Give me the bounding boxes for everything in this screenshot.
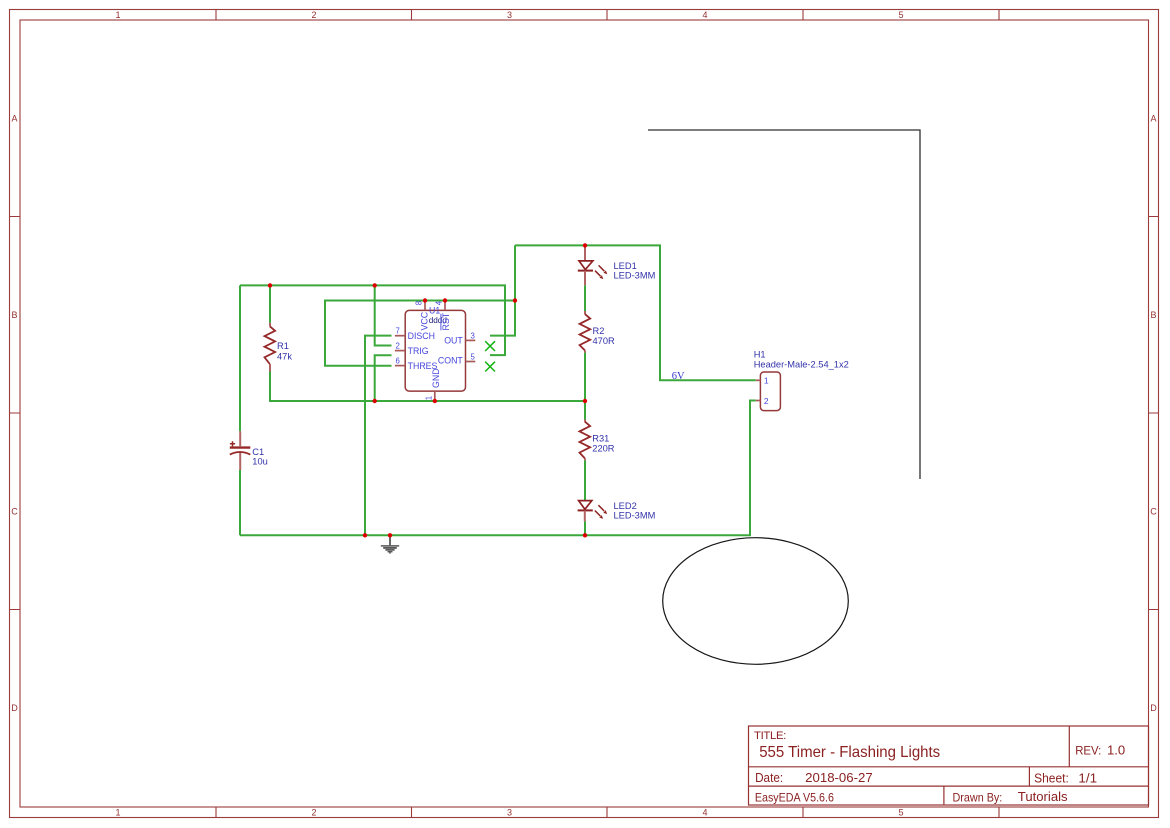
- junction node W4 mid branch: [373, 399, 377, 403]
- LED LED2: [578, 500, 656, 521]
- pin 4 RST: [434, 300, 451, 330]
- svg-text:A: A: [11, 114, 17, 124]
- svg-text:C1: C1: [252, 447, 264, 457]
- svg-text:4: 4: [434, 300, 443, 305]
- svg-text:4: 4: [702, 808, 707, 818]
- IC U1 555 timer body: [405, 306, 465, 391]
- svg-text:EasyEDA V5.6.6: EasyEDA V5.6.6: [755, 791, 834, 805]
- wire W1 top-left horizontal from C1 branch to CONT area: [240, 285, 505, 355]
- svg-text:U1: U1: [429, 306, 440, 316]
- resistor R1: [265, 323, 293, 372]
- svg-text:1: 1: [115, 10, 120, 20]
- svg-text:5: 5: [898, 808, 903, 818]
- wire from top rail down to OUT pin area: [490, 245, 515, 335]
- svg-text:2: 2: [764, 396, 769, 406]
- svg-text:C: C: [11, 507, 18, 517]
- svg-text:2: 2: [311, 10, 316, 20]
- resistor R31: [580, 420, 615, 461]
- svg-text:TITLE:: TITLE:: [754, 730, 786, 742]
- no-connect X on pin 3: [485, 341, 495, 351]
- junction node W1-TRIG branch: [373, 283, 377, 287]
- svg-text:8: 8: [414, 301, 423, 305]
- wire R31 to LED2: [584, 460, 586, 500]
- junction node rail-LED2: [583, 533, 587, 537]
- svg-text:Sheet:: Sheet:: [1034, 771, 1069, 786]
- svg-text:555 Timer - Flashing Lights: 555 Timer - Flashing Lights: [759, 744, 940, 761]
- junction node W4-R2: [583, 399, 587, 403]
- junction node W1-R1: [268, 283, 272, 287]
- svg-text:DISCH: DISCH: [408, 331, 435, 341]
- pin 1 GND: [425, 368, 441, 401]
- svg-text:1: 1: [115, 808, 120, 818]
- wire R2 bottom to W4: [584, 353, 586, 401]
- svg-text:GND: GND: [431, 368, 441, 388]
- svg-text:REV:: REV:: [1075, 743, 1101, 757]
- junction node rail-ground: [388, 533, 392, 537]
- svg-text:5: 5: [471, 353, 476, 362]
- svg-text:R2: R2: [593, 326, 605, 336]
- svg-text:A: A: [1150, 114, 1156, 124]
- svg-text:LED-3MM: LED-3MM: [614, 511, 656, 521]
- svg-text:1.0: 1.0: [1107, 742, 1125, 757]
- TITLE BLOCK: [749, 726, 1149, 805]
- wire middle branch from W4 up between pins: [375, 355, 392, 401]
- svg-text:2: 2: [395, 342, 399, 351]
- svg-text:47k: 47k: [277, 352, 292, 362]
- wire W4 node to R31: [584, 401, 586, 420]
- ground: [381, 535, 399, 553]
- svg-text:5: 5: [898, 10, 903, 20]
- net label 6V: [672, 371, 685, 382]
- svg-text:220R: 220R: [592, 444, 615, 454]
- svg-text:OUT: OUT: [444, 336, 463, 346]
- svg-text:TRIG: TRIG: [408, 346, 429, 356]
- header H1: [754, 350, 849, 411]
- junction node top rail LED1: [583, 243, 587, 247]
- svg-text:Date:: Date:: [755, 770, 783, 785]
- svg-text:2: 2: [311, 808, 316, 818]
- svg-text:1: 1: [425, 396, 434, 400]
- svg-text:470R: 470R: [593, 336, 616, 346]
- capacitor C1: [230, 431, 268, 470]
- svg-text:1: 1: [764, 376, 769, 386]
- pin 3 OUT: [444, 332, 475, 346]
- wire VCC top rail with LED1: [515, 245, 756, 380]
- wire LED1 cathode to R2: [584, 285, 586, 311]
- wire free black polyline top right: [648, 130, 920, 479]
- svg-text:D: D: [11, 703, 18, 713]
- pin 5 CONT: [438, 353, 476, 366]
- svg-text:CONT: CONT: [438, 356, 464, 366]
- wire W2 from node to THRES pin 6: [325, 301, 515, 366]
- ellipse shape bottom right: [663, 538, 849, 665]
- svg-text:6: 6: [395, 357, 399, 366]
- wire TRIG pin 2 branch from W1: [375, 285, 392, 345]
- svg-text:R31: R31: [592, 434, 609, 444]
- pin 6 THRES: [395, 357, 438, 371]
- svg-text:D: D: [1150, 703, 1157, 713]
- svg-text:10u: 10u: [252, 457, 268, 467]
- svg-text:3: 3: [471, 332, 475, 341]
- svg-text:VCC: VCC: [419, 311, 429, 330]
- wire left branch down to C1 plus pin: [239, 285, 241, 431]
- junction node rail-DISCH: [363, 533, 367, 537]
- svg-text:3: 3: [507, 808, 512, 818]
- svg-text:LED2: LED2: [614, 501, 637, 511]
- wire LED2 cathode to ground rail: [584, 521, 586, 535]
- junction node pin8 VCC: [423, 298, 427, 302]
- svg-text:1/1: 1/1: [1078, 770, 1097, 785]
- LED LED1: [578, 245, 656, 285]
- svg-text:LED1: LED1: [614, 261, 637, 271]
- pin 7 DISCH: [395, 327, 435, 341]
- svg-text:LED-3MM: LED-3MM: [614, 271, 656, 281]
- wire R1 top lead to W1: [269, 285, 271, 322]
- svg-text:C: C: [1150, 507, 1157, 517]
- pin 2 TRIG: [395, 342, 429, 356]
- wire W4 horizontal through GND pin 1: [270, 372, 585, 402]
- wire C1 minus pin down to ground rail: [239, 470, 241, 535]
- pin 8 VCC: [414, 301, 429, 331]
- svg-text:2018-06-27: 2018-06-27: [805, 771, 873, 785]
- svg-text:Header-Male-2.54_1x2: Header-Male-2.54_1x2: [754, 360, 849, 370]
- svg-text:H1: H1: [754, 350, 766, 360]
- svg-text:B: B: [11, 310, 17, 320]
- svg-text:RST: RST: [441, 312, 451, 330]
- junction node W2 corner: [513, 298, 517, 302]
- junction node pin4 RST: [443, 298, 447, 302]
- svg-text:4: 4: [702, 10, 707, 20]
- svg-text:R1: R1: [277, 341, 289, 351]
- svg-text:7: 7: [395, 327, 399, 336]
- wire DISCH pin 7 down to ground rail: [365, 336, 392, 536]
- svg-text:3: 3: [507, 10, 512, 20]
- svg-text:Drawn By:: Drawn By:: [953, 791, 1003, 805]
- svg-text:Tutorials: Tutorials: [1018, 789, 1068, 804]
- resistor R2: [580, 311, 615, 353]
- svg-text:B: B: [1150, 310, 1156, 320]
- svg-text:6V: 6V: [672, 371, 685, 382]
- wire ground rail bottom: [240, 401, 756, 536]
- junction node W4 pin1: [433, 399, 437, 403]
- no-connect X on pin 5: [485, 362, 495, 372]
